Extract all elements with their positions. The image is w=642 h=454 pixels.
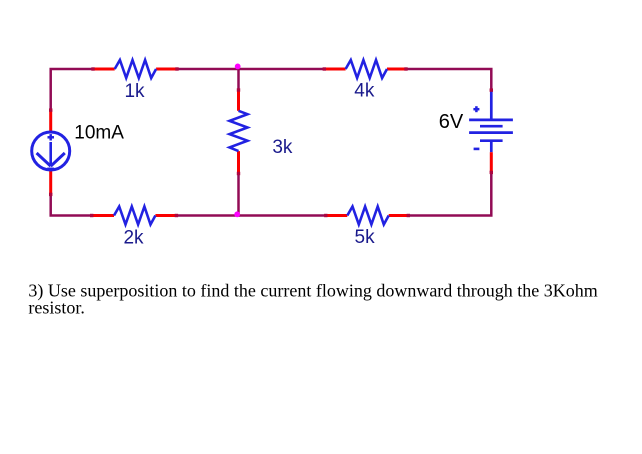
svg-text:3) Use superposition to find t: 3) Use superposition to find the current… (28, 280, 597, 301)
current source minus mark (47, 168, 54, 171)
resistor 3k bottom lead (red pin) (237, 151, 240, 173)
wire top-right corner run (406, 69, 491, 90)
current source top lead (red pin) (49, 110, 52, 132)
resistor 3k top lead (red pin) (237, 90, 240, 111)
pin junction marker bottom of 3k (237, 172, 240, 175)
resistor 4k zigzag body (346, 60, 387, 78)
wire bottom-left corner run (51, 194, 92, 215)
resistor 4k left lead (red pin) (324, 68, 345, 71)
battery plate 2 short (480, 125, 503, 128)
resistor 1k right lead (red pin) (156, 68, 177, 71)
wire middle vertical bottom stub (237, 174, 240, 217)
resistor 2k right lead (red pin) (155, 214, 176, 217)
battery bottom pin (red) (490, 152, 493, 172)
current source arrowhead right wing (51, 153, 65, 166)
svg-text:4k: 4k (354, 81, 375, 102)
pin junction marker right of 4k (404, 67, 407, 70)
pin junction marker left of 2k (90, 214, 93, 217)
pin junction marker right of 2k (175, 214, 178, 217)
current source plus mark (48, 134, 55, 140)
resistor 5k left lead (red pin) (326, 214, 348, 217)
battery plate 1 long (469, 119, 513, 122)
battery plus mark (473, 106, 479, 112)
pin junction marker top-left of 1k (91, 67, 94, 70)
resistor 5k right lead (red pin) (389, 214, 409, 217)
node dot bottom junction (234, 211, 240, 217)
wire bottom middle segment (176, 214, 325, 217)
pin junction marker left of 4k (323, 67, 326, 70)
current source 10mA circle (32, 132, 70, 170)
pin junction marker bottom of current source (49, 193, 52, 196)
battery 6V top lead (490, 89, 493, 120)
battery plate 4 short (480, 139, 503, 142)
svg-text:6V: 6V (439, 111, 464, 133)
pin junction marker top of 3k (237, 88, 240, 91)
pin junction marker right of 1k (175, 67, 178, 70)
resistor 1k left lead (red pin) (93, 68, 115, 71)
wire middle vertical top stub (237, 68, 240, 90)
battery plate 3 long (469, 131, 513, 134)
svg-text:3k: 3k (272, 137, 293, 158)
pin junction marker right of 5k (407, 214, 410, 217)
current source bottom lead (red pin) (49, 170, 52, 194)
node dot top junction (235, 64, 241, 70)
pin junction marker bottom of battery (490, 171, 493, 174)
resistor 3k zigzag body (230, 111, 248, 151)
battery bottom lead (490, 141, 493, 153)
resistor 2k left lead (red pin) (92, 214, 114, 217)
svg-text:10mA: 10mA (74, 122, 124, 143)
resistor 4k right lead (red pin) (387, 68, 406, 71)
battery minus mark (474, 148, 480, 151)
wire bottom-right corner run (408, 172, 491, 215)
wire top middle segment (177, 68, 324, 71)
pin junction marker top of current source (49, 108, 52, 111)
resistor 1k zigzag body (115, 60, 156, 78)
resistor 5k zigzag body (347, 207, 388, 225)
current source arrowhead left wing (37, 153, 51, 166)
svg-text:5k: 5k (355, 227, 376, 248)
pin junction marker left of 5k (324, 214, 327, 217)
current source arrow shaft (49, 142, 52, 166)
wire top-left corner run (51, 69, 93, 110)
svg-text:1k: 1k (124, 81, 145, 102)
pin junction marker top of battery (490, 88, 493, 91)
svg-text:resistor.: resistor. (28, 297, 85, 317)
resistor 2k zigzag body (114, 207, 155, 225)
svg-text:2k: 2k (123, 227, 144, 248)
